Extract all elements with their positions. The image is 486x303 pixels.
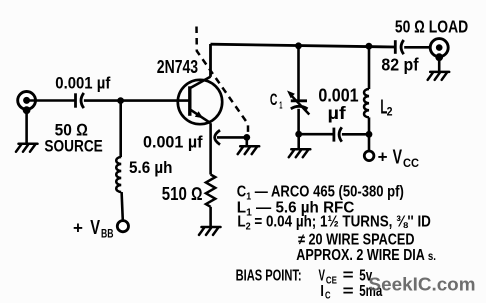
connector J1 50-ohm source	[18, 92, 36, 110]
node rail C1	[295, 42, 302, 49]
wire L1 to VBB terminal	[122, 192, 123, 221]
capacitor C1 variable	[287, 46, 309, 134]
svg-text:V: V	[90, 217, 100, 239]
wire top rail	[211, 44, 395, 47]
label +VCC	[378, 146, 419, 170]
dashed feedback path	[197, 27, 249, 135]
wire bottom rail right	[342, 133, 369, 136]
wire resistor to ground	[209, 207, 212, 227]
label 50 ohm source	[44, 121, 102, 156]
svg-text:BB: BB	[101, 228, 114, 240]
svg-text:5.6 µh: 5.6 µh	[129, 158, 173, 177]
node bypass ground	[243, 134, 250, 141]
capacitor 0.001 uF input	[76, 93, 84, 108]
wire bottom rail left	[299, 133, 334, 136]
note line 1 C1 ARCO	[237, 184, 404, 203]
svg-text:510 Ω: 510 Ω	[162, 183, 203, 204]
wire source to input cap	[27, 99, 76, 102]
svg-text:50 Ω LOAD: 50 Ω LOAD	[395, 16, 468, 36]
svg-text:0.001 µf: 0.001 µf	[55, 74, 110, 93]
wire collector up	[209, 44, 212, 77]
wire load to ground	[438, 57, 441, 71]
svg-text:APPROX. 2 WIRE DIA s.: APPROX. 2 WIRE DIA s.	[296, 247, 436, 264]
ground (C1)	[289, 149, 311, 157]
connector 50-ohm load	[430, 39, 448, 57]
ground (bypass)	[238, 146, 260, 154]
svg-text:2: 2	[387, 104, 393, 118]
svg-text:V: V	[319, 268, 326, 285]
wire L2 node to VCC	[368, 134, 371, 151]
bias point line 1	[236, 267, 373, 286]
capacitor 0.001 uf emitter bypass	[215, 130, 220, 144]
wire source down to ground	[25, 110, 28, 143]
label C1	[270, 90, 283, 112]
terminal +VCC open circle	[364, 151, 374, 161]
node junction base/bias	[117, 97, 124, 104]
inductor L1 5.6 uh	[116, 157, 121, 192]
node bottom rail left	[295, 131, 302, 138]
capacitor 82 pf	[395, 40, 403, 54]
note line 3 L2	[237, 214, 430, 233]
label +VBB	[73, 217, 114, 241]
wire emitter down	[209, 123, 212, 174]
transistor Q1 2N743	[178, 77, 222, 125]
label L2	[380, 95, 392, 118]
svg-text:I: I	[320, 283, 324, 300]
svg-text:+: +	[378, 147, 388, 166]
svg-text:C: C	[325, 290, 331, 301]
svg-text:2N743: 2N743	[157, 57, 198, 77]
svg-text:≠ 20 WIRE SPACED: ≠ 20 WIRE SPACED	[298, 232, 415, 249]
svg-text:+: +	[73, 219, 83, 238]
wire junction down to L1	[119, 101, 122, 157]
ground (source)	[16, 144, 38, 152]
svg-text:µf: µf	[328, 103, 346, 123]
svg-text:CE: CE	[326, 275, 337, 286]
terminal +VBB open circle	[117, 221, 128, 232]
svg-text:L2 = 0.04 µh; 1½ TURNS, ⅜'' ID: L2 = 0.04 µh; 1½ TURNS, ⅜'' ID	[237, 214, 430, 233]
inductor L2	[364, 46, 369, 134]
wire input cap to base	[84, 99, 190, 102]
ground (emitter)	[199, 227, 221, 235]
bias point line 2	[320, 283, 382, 302]
junction dot below source	[23, 106, 31, 114]
svg-text:=: =	[343, 283, 354, 300]
svg-text:SeekIC.com: SeekIC.com	[369, 274, 476, 295]
wire bypass node down	[246, 137, 249, 145]
junction dot below load	[435, 53, 443, 61]
ground (load)	[428, 72, 450, 80]
wire 82pf to load	[404, 46, 439, 49]
svg-text:1: 1	[279, 100, 282, 112]
svg-text:C: C	[270, 90, 278, 109]
wire C1 node to ground	[297, 134, 300, 148]
resistor 510 ohm	[206, 175, 215, 207]
node rail L2	[366, 43, 373, 50]
svg-text:SOURCE: SOURCE	[44, 138, 102, 156]
svg-text:CC: CC	[403, 158, 419, 170]
svg-text:=: =	[343, 267, 354, 284]
svg-text:BIAS POINT:: BIAS POINT:	[236, 267, 302, 284]
wire bypass cap to ground node	[217, 136, 247, 139]
note line 2 L1	[237, 199, 354, 218]
svg-text:V: V	[393, 146, 403, 168]
node bottom rail right	[366, 131, 373, 138]
capacitor 0.001 uf tank coupling	[334, 127, 342, 141]
svg-text:0.001 µf: 0.001 µf	[143, 133, 203, 151]
svg-text:82 pf: 82 pf	[381, 55, 418, 75]
label 0.001 uf tank	[318, 85, 358, 123]
